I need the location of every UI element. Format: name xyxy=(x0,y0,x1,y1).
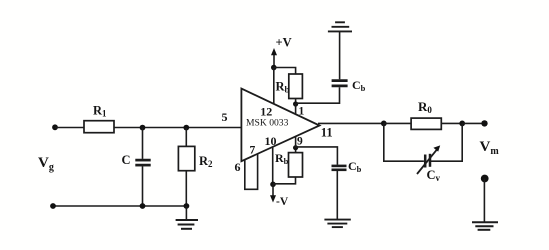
node -V junction xyxy=(270,182,276,188)
wire xyxy=(431,123,462,161)
capacitor Cb (top) xyxy=(332,78,366,93)
resistor Rb (bottom) xyxy=(275,151,303,177)
wire xyxy=(462,122,484,124)
wire output xyxy=(318,122,384,124)
resistor Rb (top) xyxy=(276,74,303,99)
svg-text:1: 1 xyxy=(299,105,305,117)
wire xyxy=(295,99,297,105)
wire pin 10 xyxy=(272,147,274,184)
wire xyxy=(274,68,296,75)
wire xyxy=(339,32,341,80)
svg-text:+V: +V xyxy=(276,35,292,49)
svg-text:Rb: Rb xyxy=(275,151,289,166)
svg-text:6: 6 xyxy=(235,160,241,174)
capacitor Cv (variable) xyxy=(417,145,441,183)
junction xyxy=(140,203,146,209)
wire xyxy=(336,171,338,220)
resistor R1 xyxy=(84,104,114,133)
wire xyxy=(295,148,297,153)
power -V xyxy=(270,184,289,208)
resistor R0 xyxy=(411,99,441,129)
wire xyxy=(296,87,340,103)
svg-text:Cv: Cv xyxy=(427,168,441,183)
wire xyxy=(55,127,84,129)
svg-text:Vm: Vm xyxy=(480,139,500,157)
svg-text:11: 11 xyxy=(321,126,333,140)
power +V xyxy=(271,35,292,67)
node R0 right junction xyxy=(459,121,465,127)
wire xyxy=(483,179,485,222)
node output junction xyxy=(381,121,387,127)
wire xyxy=(441,122,462,124)
node pin 9 xyxy=(293,145,298,150)
svg-text:Cb: Cb xyxy=(352,78,366,93)
svg-text:Rb: Rb xyxy=(276,80,290,95)
ground (bottom middle) xyxy=(324,220,350,228)
node R2 junction xyxy=(183,125,189,131)
svg-text:R1: R1 xyxy=(93,104,107,119)
wire bottom rail xyxy=(53,205,186,207)
svg-text:R0: R0 xyxy=(418,99,432,115)
ground (top, inverted) xyxy=(328,22,352,31)
svg-text:10: 10 xyxy=(265,134,277,148)
svg-text:R2: R2 xyxy=(199,154,213,169)
svg-text:12: 12 xyxy=(260,105,272,119)
ground xyxy=(176,206,198,229)
capacitor C xyxy=(122,128,151,206)
wire pin 1 stem xyxy=(295,104,297,115)
wire xyxy=(384,123,424,161)
junction xyxy=(184,203,190,209)
node +V junction xyxy=(271,65,277,71)
wire xyxy=(384,122,411,124)
node Vg- input terminal xyxy=(50,203,56,209)
node C junction xyxy=(140,125,146,131)
svg-text:-V: -V xyxy=(276,196,289,208)
resistor R2 xyxy=(178,128,213,206)
svg-text:Vg: Vg xyxy=(38,155,54,173)
node pin 1 xyxy=(293,101,298,106)
wire pin 12 xyxy=(273,68,275,105)
svg-text:Cb: Cb xyxy=(348,159,362,174)
node Vg+ input terminal xyxy=(52,124,58,130)
svg-text:MSK 0033: MSK 0033 xyxy=(246,118,289,129)
svg-text:9: 9 xyxy=(297,135,303,147)
node Vm+ terminal xyxy=(481,120,487,126)
wire xyxy=(114,127,241,129)
wire pin6-7 strap xyxy=(245,154,258,189)
svg-text:7: 7 xyxy=(250,145,256,157)
ground (bottom right) xyxy=(472,222,498,230)
wire xyxy=(296,147,338,165)
node Vm- terminal xyxy=(481,175,489,183)
wire pin 9 stem xyxy=(295,136,297,148)
op-amp U1 MSK 0033 xyxy=(241,89,319,162)
capacitor Cb (bottom) xyxy=(332,159,362,174)
wire xyxy=(273,177,296,184)
svg-text:5: 5 xyxy=(222,110,228,124)
svg-text:C: C xyxy=(122,153,131,167)
